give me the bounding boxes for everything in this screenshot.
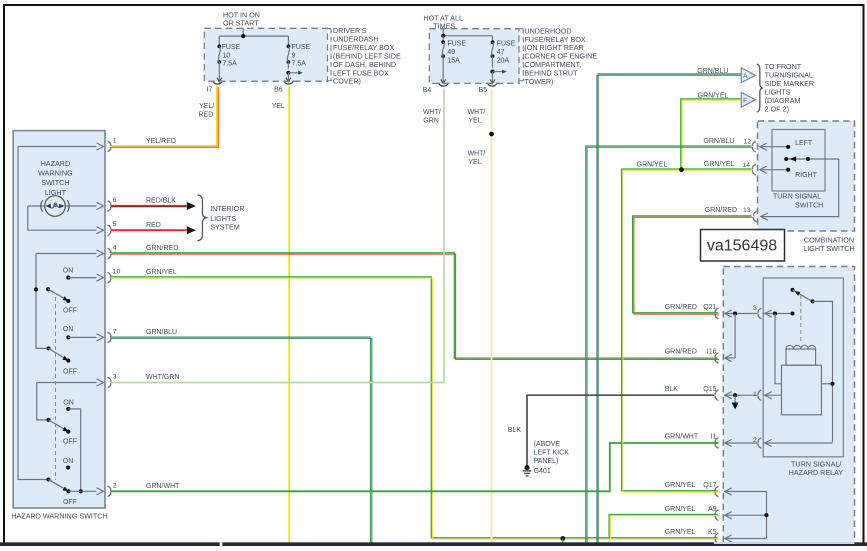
svg-text:A9: A9 <box>708 506 717 513</box>
svg-text:1: 1 <box>753 391 757 398</box>
svg-text:7: 7 <box>113 328 117 335</box>
svg-text:YEL: YEL <box>468 117 481 124</box>
svg-text:GRN/BLU: GRN/BLU <box>703 138 734 145</box>
svg-text:F: F <box>743 97 747 104</box>
svg-text:HAZARD WARNING SWITCH: HAZARD WARNING SWITCH <box>11 511 107 520</box>
svg-text:FUSE: FUSE <box>222 44 241 51</box>
svg-text:G401: G401 <box>534 468 551 475</box>
svg-text:7.5A: 7.5A <box>292 61 307 68</box>
svg-text:YEL/RED: YEL/RED <box>146 138 176 145</box>
svg-text:Q15: Q15 <box>703 386 716 393</box>
svg-text:va156498: va156498 <box>707 238 777 255</box>
svg-text:B6: B6 <box>274 87 283 94</box>
svg-text:YEL: YEL <box>468 159 481 166</box>
svg-text:OFF: OFF <box>63 499 77 506</box>
svg-text:RED: RED <box>199 111 214 118</box>
svg-text:GRN: GRN <box>423 117 439 124</box>
svg-text:OR START: OR START <box>223 18 259 27</box>
svg-text:20A: 20A <box>497 57 510 64</box>
svg-text:LIGHT SWITCH: LIGHT SWITCH <box>803 244 854 253</box>
svg-text:ON: ON <box>63 268 74 275</box>
svg-text:ON: ON <box>63 458 74 465</box>
svg-text:LEFT KICK: LEFT KICK <box>534 450 570 457</box>
svg-text:10: 10 <box>222 52 230 59</box>
svg-text:GRN/RED: GRN/RED <box>146 245 178 252</box>
svg-text:4: 4 <box>113 245 117 252</box>
svg-text:SYSTEM: SYSTEM <box>210 222 240 231</box>
svg-text:SWITCH: SWITCH <box>795 201 823 210</box>
svg-text:FUSE: FUSE <box>292 44 311 51</box>
svg-text:GRN/YEL: GRN/YEL <box>665 529 696 536</box>
svg-text:Q21: Q21 <box>703 304 716 311</box>
svg-text:BLK: BLK <box>508 427 522 434</box>
svg-text:10: 10 <box>113 269 121 276</box>
svg-text:13: 13 <box>743 207 751 214</box>
svg-text:GRN/YEL: GRN/YEL <box>698 93 729 100</box>
svg-text:I16: I16 <box>707 349 717 356</box>
svg-text:WARNING: WARNING <box>38 169 73 178</box>
svg-text:RED/BLK: RED/BLK <box>146 198 176 205</box>
svg-text:OFF: OFF <box>63 439 77 446</box>
svg-text:INTERIOR: INTERIOR <box>210 204 244 213</box>
svg-text:YEL/: YEL/ <box>199 103 214 110</box>
svg-text:3: 3 <box>753 305 757 312</box>
svg-text:GRN/RED: GRN/RED <box>665 304 697 311</box>
svg-text:2: 2 <box>113 482 117 489</box>
svg-text:12: 12 <box>743 138 751 145</box>
svg-text:WHT/: WHT/ <box>467 109 485 116</box>
svg-text:OFF: OFF <box>63 369 77 376</box>
svg-text:GRN/BLU: GRN/BLU <box>146 329 177 336</box>
svg-text:COVER): COVER) <box>333 77 361 86</box>
svg-text:GRN/WHT: GRN/WHT <box>146 483 180 490</box>
svg-text:TOWER): TOWER) <box>524 77 553 86</box>
svg-text:WHT/GRN: WHT/GRN <box>146 374 179 381</box>
svg-text:GRN/WHT: GRN/WHT <box>665 434 699 441</box>
svg-text:2 OF 2): 2 OF 2) <box>765 105 789 114</box>
svg-text:RED: RED <box>146 222 161 229</box>
svg-text:LIGHT: LIGHT <box>45 188 67 197</box>
svg-text:GRN/RED: GRN/RED <box>705 207 737 214</box>
svg-text:9: 9 <box>292 52 296 59</box>
svg-text:FUSE: FUSE <box>447 40 466 47</box>
svg-text:GRN/YEL: GRN/YEL <box>146 269 177 276</box>
svg-text:YEL: YEL <box>272 103 285 110</box>
svg-text:HAZARD RELAY: HAZARD RELAY <box>789 468 844 477</box>
svg-text:ON: ON <box>63 400 74 407</box>
svg-text:BLK: BLK <box>665 386 679 393</box>
svg-text:(ABOVE: (ABOVE <box>534 441 561 448</box>
svg-text:WHT/: WHT/ <box>467 151 485 158</box>
svg-text:ON: ON <box>63 326 74 333</box>
svg-text:B4: B4 <box>423 87 432 94</box>
svg-text:GRN/YEL: GRN/YEL <box>637 161 668 168</box>
svg-text:LEFT: LEFT <box>795 140 813 147</box>
svg-text:A: A <box>743 73 748 80</box>
svg-text:7.5A: 7.5A <box>222 61 237 68</box>
svg-text:OFF: OFF <box>63 308 77 315</box>
svg-text:GRN/BLU: GRN/BLU <box>697 68 728 75</box>
svg-text:B5: B5 <box>479 87 488 94</box>
svg-text:TURN SIGNAL: TURN SIGNAL <box>773 192 821 201</box>
svg-text:GRN/YEL: GRN/YEL <box>704 161 735 168</box>
svg-text:GRN/YEL: GRN/YEL <box>665 482 696 489</box>
svg-text:WHT/: WHT/ <box>423 109 441 116</box>
svg-text:K5: K5 <box>708 529 717 536</box>
svg-text:14: 14 <box>742 162 750 169</box>
svg-text:SWITCH: SWITCH <box>41 178 69 187</box>
svg-text:5: 5 <box>113 221 117 228</box>
svg-text:I1: I1 <box>711 434 717 441</box>
svg-text:Q17: Q17 <box>703 482 716 489</box>
svg-text:1: 1 <box>113 138 117 145</box>
svg-text:GRN/YEL: GRN/YEL <box>665 506 696 513</box>
svg-text:15A: 15A <box>447 57 460 64</box>
svg-text:6: 6 <box>113 197 117 204</box>
svg-text:49: 49 <box>447 49 455 56</box>
svg-text:FUSE: FUSE <box>497 40 516 47</box>
svg-text:PANEL): PANEL) <box>534 458 559 465</box>
svg-text:3: 3 <box>113 374 117 381</box>
svg-text:GRN/RED: GRN/RED <box>665 349 697 356</box>
svg-text:I7: I7 <box>207 87 213 94</box>
svg-text:HAZARD: HAZARD <box>41 159 71 168</box>
svg-text:47: 47 <box>497 49 505 56</box>
svg-text:RIGHT: RIGHT <box>795 172 818 179</box>
